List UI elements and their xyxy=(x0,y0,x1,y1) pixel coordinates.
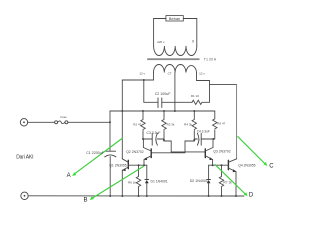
svg-text:R3 3k: R3 3k xyxy=(167,122,175,126)
wire + feed from fuse xyxy=(28,121,55,123)
svg-text:C4 3.3uF: C4 3.3uF xyxy=(197,130,210,134)
wire cross-coupling staircase xyxy=(164,141,194,152)
capacitor C3 plates xyxy=(152,133,157,145)
wire load box right xyxy=(183,18,197,20)
battery terminal + xyxy=(20,119,27,126)
resistor R1 zigzag xyxy=(192,100,202,104)
capacitor C3 left lead xyxy=(143,138,152,140)
arrowhead D xyxy=(244,192,248,196)
svg-text:D1 1N4001: D1 1N4001 xyxy=(151,180,168,184)
arrowhead C xyxy=(263,162,267,166)
resistor R2 xyxy=(141,111,145,139)
callout line C xyxy=(238,136,266,164)
svg-text:220 v: 220 v xyxy=(157,40,165,44)
svg-text:A: A xyxy=(67,173,71,179)
svg-text:R7 1k: R7 1k xyxy=(223,180,232,184)
resistor R6 xyxy=(136,165,140,196)
wire secondary left tap xyxy=(122,73,153,81)
capacitor C2 left lead xyxy=(144,80,158,102)
wire secondary center tap xyxy=(174,73,176,112)
svg-text:0: 0 xyxy=(192,39,194,43)
svg-text:Q2 2N3702: Q2 2N3702 xyxy=(126,150,143,154)
svg-text:CT: CT xyxy=(168,72,172,76)
callout line B xyxy=(92,166,145,199)
capacitor C4 left lead xyxy=(194,138,197,140)
svg-text:C: C xyxy=(269,164,274,170)
svg-text:C3 3.3uF: C3 3.3uF xyxy=(147,131,161,135)
svg-text:R4 3k: R4 3k xyxy=(184,122,192,126)
transistor Q1 xyxy=(127,160,129,168)
junction dots xyxy=(109,79,237,197)
capacitor C4 right lead xyxy=(201,138,213,140)
wire load box left xyxy=(154,18,166,20)
svg-text:T1 20 A: T1 20 A xyxy=(204,58,217,62)
svg-text:12 v: 12 v xyxy=(199,72,205,76)
wire base bus Q2-Q3 xyxy=(151,151,205,154)
transistor Q2 xyxy=(150,149,152,158)
transformer T1 primary winding xyxy=(154,46,197,56)
transformer T1 primary right lead xyxy=(196,19,198,47)
arrowhead A xyxy=(72,172,76,176)
callout line D xyxy=(215,164,246,194)
diode D1 xyxy=(146,165,148,196)
green annotation lines xyxy=(74,136,265,198)
arrowhead B xyxy=(90,196,94,200)
svg-text:C2 100uF: C2 100uF xyxy=(155,92,172,96)
svg-text:12 v: 12 v xyxy=(139,72,145,76)
wire left rail corner down xyxy=(109,111,111,151)
wire Q1 base wire xyxy=(128,164,147,166)
svg-text:R1 10: R1 10 xyxy=(191,94,199,98)
wire R1 right lead xyxy=(202,85,210,103)
fuse F1 xyxy=(55,121,58,124)
capacitor C4 plates xyxy=(197,133,201,145)
svg-text:D: D xyxy=(249,192,254,198)
capacitor C2 right lead xyxy=(162,101,192,103)
transistor Q4 xyxy=(227,160,229,169)
wire Q4 base wire xyxy=(209,164,229,166)
capacitor C1 top plate xyxy=(105,150,115,152)
resistor R3 xyxy=(162,111,166,141)
callout line A xyxy=(74,138,123,174)
svg-text:Dari AKI: Dari AKI xyxy=(16,155,33,161)
svg-text:R2 47: R2 47 xyxy=(133,122,141,126)
resistor R7 xyxy=(219,165,223,196)
svg-text:Fuse: Fuse xyxy=(61,115,68,119)
svg-text:D2 1N4001: D2 1N4001 xyxy=(190,179,208,183)
wire left tap vertical xyxy=(121,80,123,159)
svg-text:Beban: Beban xyxy=(169,16,181,21)
capacitor C2 plates xyxy=(158,98,162,108)
capacitor C3 right lead xyxy=(157,138,164,140)
transformer T1 core xyxy=(147,58,199,60)
bottom ground rail xyxy=(28,195,244,197)
top rail of multivibrator xyxy=(110,110,215,112)
wire fuse to rail xyxy=(68,121,110,123)
svg-text:B: B xyxy=(84,197,88,203)
load box Beban xyxy=(166,16,183,21)
transformer T1 primary left lead xyxy=(153,19,155,47)
svg-text:Q1 2N3055: Q1 2N3055 xyxy=(109,164,126,168)
transistor Q3 xyxy=(204,149,206,158)
battery terminal - xyxy=(21,192,28,199)
svg-text:R6 1k: R6 1k xyxy=(128,180,136,184)
resistor R5 xyxy=(213,111,217,139)
svg-text:C1 2200uF: C1 2200uF xyxy=(86,151,105,155)
capacitor C1 bottom curved plate xyxy=(105,155,116,157)
capacitor C1 bottom lead xyxy=(109,157,111,197)
wire secondary right tap xyxy=(197,73,237,85)
svg-text:Q4 2N3055: Q4 2N3055 xyxy=(238,164,255,168)
wire right vertical to Q4 collector xyxy=(236,85,238,159)
resistor R4 xyxy=(192,111,196,141)
svg-text:R5 47: R5 47 xyxy=(217,121,225,125)
transformer T1 secondary winding xyxy=(154,65,197,73)
diode D2 xyxy=(208,165,210,196)
svg-text:Q3 2N3702: Q3 2N3702 xyxy=(213,149,230,153)
